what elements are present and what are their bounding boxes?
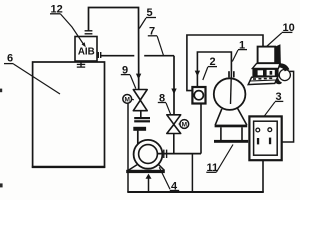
- label 9: [121, 64, 136, 88]
- label 8: [158, 92, 171, 114]
- label 5: [139, 7, 156, 29]
- return drop wire: [191, 154, 193, 192]
- vessel 1 flange: [229, 71, 234, 77]
- AIB box U12: [75, 31, 101, 68]
- discharge flange ticks: [164, 150, 167, 158]
- svg-text:6: 6: [7, 53, 13, 65]
- valve 9 flanges: [134, 118, 150, 121]
- flow arrow into meter: [195, 71, 200, 77]
- monitoring loop wire: [187, 35, 263, 91]
- panel to computer wire: [282, 71, 294, 142]
- sense wire to vessel: [197, 52, 231, 87]
- label 12: [50, 4, 86, 48]
- suction loop left wire: [127, 103, 129, 192]
- label 7: [148, 25, 164, 55]
- valve 8 motor M: [179, 120, 189, 129]
- scan speck left edge upper: [0, 89, 2, 93]
- discharge pipe: [157, 153, 201, 155]
- control panel 3: [249, 116, 281, 160]
- label 3: [265, 91, 284, 116]
- flow arrow on valve 8 riser: [171, 89, 176, 95]
- label 2: [203, 56, 217, 80]
- valve 9: [133, 90, 147, 118]
- valve 9 motor M: [123, 95, 134, 104]
- pump 4: [126, 127, 165, 173]
- scan speck left edge lower: [0, 183, 3, 187]
- label 10: [266, 22, 295, 47]
- label 4: [159, 167, 179, 192]
- vessel 1: [214, 72, 248, 143]
- valve 8: [167, 115, 181, 153]
- svg-text:M: M: [124, 96, 129, 103]
- bottom return wire: [127, 191, 263, 193]
- svg-text:AIB: AIB: [78, 47, 95, 58]
- label 6: [4, 53, 60, 95]
- flow meter 2: [192, 87, 205, 104]
- pipe 7 (AIB right port to valve 8): [101, 56, 174, 115]
- svg-text:M: M: [182, 122, 187, 129]
- riser to flow meter 2: [200, 103, 202, 154]
- computer 10: [248, 44, 290, 84]
- flow arrow into pump base: [146, 174, 152, 192]
- label 1: [232, 39, 247, 61]
- flow arrow on pipe 5: [136, 74, 141, 80]
- panel drop wire: [262, 160, 264, 192]
- pipe 5 (AIB top to valve 9): [89, 8, 139, 90]
- tank 6: [32, 62, 105, 167]
- label 11: [206, 145, 233, 174]
